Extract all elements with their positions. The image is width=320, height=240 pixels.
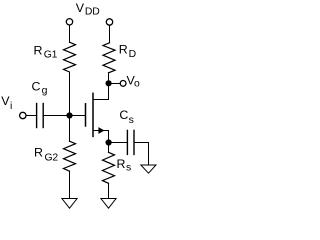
svg-text:g: g	[42, 86, 48, 97]
resistor RG2	[64, 141, 76, 171]
wire Cs to ground	[134, 143, 149, 166]
svg-text:V: V	[76, 1, 85, 15]
resistor RS	[103, 152, 115, 183]
transistor Q1 drain lead	[93, 84, 109, 100]
wire source node to Cs	[112, 142, 128, 144]
wire VDD-left to RG1	[69, 25, 71, 42]
label Cg	[32, 79, 48, 96]
svg-text:DD: DD	[85, 7, 100, 18]
terminal VDD right	[106, 19, 112, 25]
capacitor Cg	[37, 104, 44, 128]
resistor RD	[103, 43, 115, 73]
resistor RG1	[64, 42, 76, 72]
terminal VDD left	[66, 19, 72, 25]
wire Cg to gate	[43, 115, 85, 117]
wire Vi to Cg	[26, 115, 37, 117]
wire RS to ground	[108, 183, 110, 198]
transistor Q1 channel bar	[92, 93, 94, 136]
ground under RS	[101, 199, 116, 209]
svg-text:G1: G1	[44, 49, 58, 60]
label Cs	[119, 108, 133, 126]
svg-text:R: R	[117, 157, 126, 171]
svg-text:D: D	[129, 49, 136, 60]
label Vo	[127, 73, 141, 89]
svg-text:G2: G2	[45, 152, 59, 163]
wire source node to RS	[108, 143, 110, 153]
svg-text:V: V	[1, 94, 10, 108]
wire RG2 to ground	[69, 171, 71, 198]
svg-text:i: i	[10, 101, 12, 112]
transistor Q1 source lead	[93, 131, 109, 143]
svg-text:R: R	[34, 44, 43, 58]
svg-text:R: R	[119, 42, 128, 56]
node G junction dot	[66, 112, 72, 118]
terminal Vo	[120, 81, 126, 87]
svg-text:C: C	[119, 108, 128, 122]
ground under RG2	[62, 199, 77, 209]
node D junction dot	[106, 80, 112, 86]
wire drain node to Vo terminal	[112, 83, 121, 85]
svg-text:o: o	[134, 78, 140, 89]
label RG1	[34, 44, 58, 61]
label RD	[119, 42, 136, 60]
wire drain node to RD	[108, 73, 110, 84]
transistor Q1 gate bar	[85, 104, 87, 126]
label RS	[117, 157, 132, 173]
ground under Cs	[141, 165, 156, 173]
terminal Vi	[20, 112, 26, 118]
svg-text:s: s	[129, 115, 134, 126]
svg-text:s: s	[126, 163, 131, 174]
wire RD to VDD-right	[109, 25, 111, 43]
label VDD	[76, 1, 100, 18]
svg-text:R: R	[34, 145, 43, 159]
label Vi	[1, 94, 12, 112]
svg-text:C: C	[32, 79, 41, 93]
label RG2	[34, 145, 58, 163]
node S junction dot	[106, 139, 112, 145]
capacitor Cs	[127, 130, 134, 154]
wire RG1 to RG2 (gate node vertical)	[69, 72, 71, 141]
transistor Q1 source arrow	[98, 127, 104, 134]
